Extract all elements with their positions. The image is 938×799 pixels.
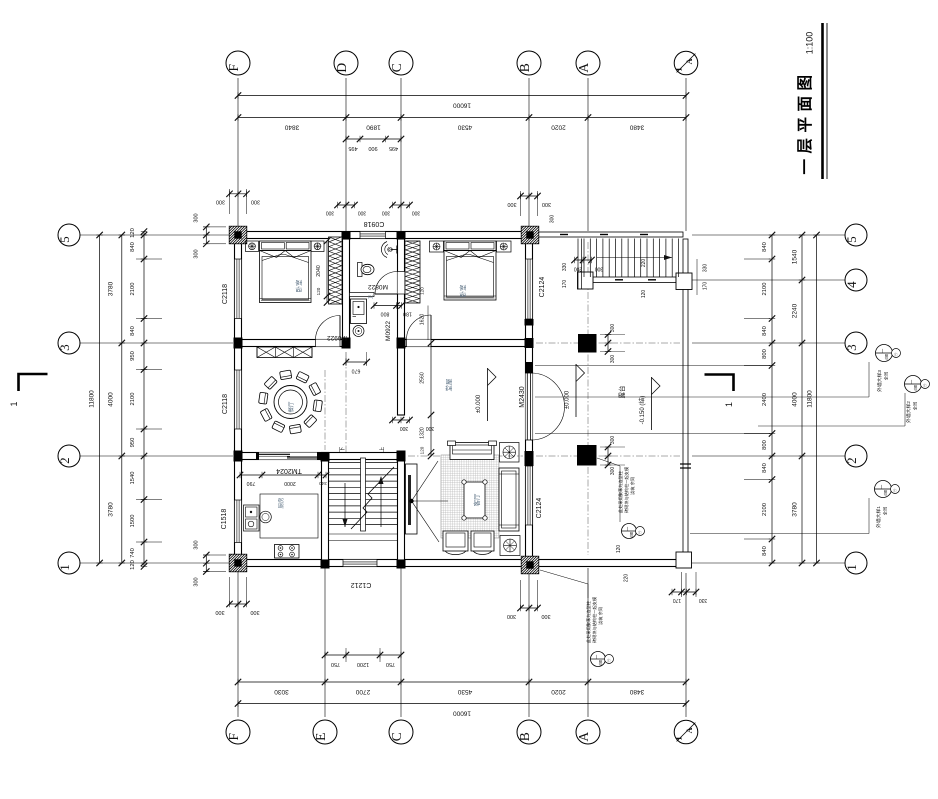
mini dim 170-330 bottom 1/A bbox=[672, 591, 696, 593]
svg-text:800: 800 bbox=[381, 311, 390, 317]
svg-text:卫: 卫 bbox=[368, 294, 373, 299]
dim chain hall 2560-1320-120 bbox=[430, 343, 432, 456]
window C2118 upper in wall F bbox=[235, 259, 242, 319]
svg-text:外墙大样2: 外墙大样2 bbox=[905, 401, 912, 423]
svg-text:㊀: ㊀ bbox=[606, 658, 611, 662]
svg-text:1500: 1500 bbox=[130, 515, 136, 528]
svg-text:300: 300 bbox=[216, 199, 225, 205]
grid line C vertical bbox=[400, 78, 402, 231]
svg-text:1: 1 bbox=[674, 67, 684, 71]
svg-text:340: 340 bbox=[319, 481, 327, 486]
svg-text:300: 300 bbox=[194, 249, 200, 258]
svg-text:详图: 详图 bbox=[883, 490, 888, 496]
section cut marker 1 left bbox=[19, 374, 48, 391]
svg-text:E: E bbox=[313, 733, 328, 741]
exterior wall top (grid 5, F to B) bbox=[235, 232, 533, 239]
window C1518 in wall F bbox=[235, 500, 242, 543]
bathroom shower head symbol bbox=[381, 242, 387, 258]
svg-text:170: 170 bbox=[703, 282, 709, 291]
dim row bottom 16000 bbox=[238, 703, 686, 705]
svg-text:4530: 4530 bbox=[457, 688, 472, 695]
svg-text:900: 900 bbox=[368, 145, 377, 151]
svg-text:4: 4 bbox=[844, 281, 859, 288]
svg-text:此处采用聚苯为连型柱: 此处采用聚苯为连型柱 bbox=[617, 470, 624, 513]
double door M2430 (wall B, hall to terrace) bbox=[526, 373, 533, 440]
svg-text:详图: 详图 bbox=[629, 532, 634, 538]
stub lines right chain bbox=[744, 258, 770, 260]
mini dim 300-300 above C2 column bbox=[393, 419, 410, 421]
svg-text:300: 300 bbox=[507, 201, 516, 207]
svg-text:120: 120 bbox=[641, 290, 647, 299]
svg-text:300: 300 bbox=[541, 613, 550, 619]
svg-text:B: B bbox=[517, 63, 532, 72]
terrace steps left edge double line bbox=[577, 239, 579, 290]
white newel column stair landing bbox=[578, 272, 594, 289]
svg-text:740: 740 bbox=[130, 548, 136, 558]
svg-text:M2430: M2430 bbox=[519, 386, 526, 408]
terrace entry steps treads bbox=[583, 239, 585, 278]
svg-text:2100: 2100 bbox=[130, 283, 136, 296]
terrace south wall (B to 1/A) bbox=[533, 560, 679, 567]
svg-text:一: 一 bbox=[625, 526, 630, 531]
svg-text:220: 220 bbox=[624, 574, 630, 583]
terrace stair railing grid4 bbox=[593, 277, 676, 283]
svg-text:2560: 2560 bbox=[420, 372, 426, 384]
bed bedroom2 bbox=[444, 241, 496, 251]
dim chain left segments bbox=[143, 232, 145, 567]
svg-text:一: 一 bbox=[880, 348, 885, 353]
svg-text:厨房: 厨房 bbox=[277, 497, 285, 509]
grid line E vertical (bottom only) bbox=[324, 567, 326, 717]
tv cabinet living room bbox=[406, 464, 418, 534]
nightstand bedroom1 right bbox=[311, 241, 324, 252]
dim chain left 11800 bbox=[99, 235, 101, 563]
bed bedroom1 bbox=[260, 241, 312, 251]
bubble E bottom bbox=[313, 720, 337, 744]
mini dims around column A3 bbox=[607, 335, 609, 352]
column C1 bbox=[397, 560, 406, 569]
svg-text:300: 300 bbox=[250, 609, 259, 615]
grid line F vertical bbox=[237, 78, 239, 231]
axis dash line A interior bbox=[587, 242, 589, 555]
terrace north railing (B to 1/A, grid5) bbox=[533, 232, 684, 237]
corner column B5 hatched bbox=[521, 226, 539, 244]
svg-text:浇筑 余同: 浇筑 余同 bbox=[597, 607, 604, 625]
svg-text:2240: 2240 bbox=[792, 303, 799, 318]
kitchen sink counter bbox=[244, 505, 260, 531]
axis dash centerline wall B bbox=[528, 246, 530, 552]
grid line 1 horizontal bbox=[80, 562, 233, 564]
bathroom washbasin cabinet bbox=[351, 299, 367, 324]
svg-text:3840: 3840 bbox=[284, 124, 299, 131]
nightstand bedroom2 right bbox=[497, 241, 512, 252]
white corner column 1/A-1 (terrace) bbox=[676, 552, 692, 568]
indoor staircase break line bbox=[351, 467, 394, 529]
svg-text:C0918: C0918 bbox=[364, 220, 385, 227]
bathroom floor washer circle bbox=[353, 326, 364, 337]
svg-text:120: 120 bbox=[316, 287, 321, 295]
axis dash line E interior bbox=[324, 370, 326, 450]
interior wall C middle (grid3 to hall niche) bbox=[398, 347, 405, 416]
svg-text:300: 300 bbox=[610, 324, 616, 333]
column E1 bbox=[321, 560, 330, 569]
svg-text:300: 300 bbox=[426, 425, 435, 431]
svg-text:200: 200 bbox=[574, 266, 583, 272]
svg-text:11800: 11800 bbox=[807, 390, 814, 408]
nightstand bedroom2 left bbox=[430, 241, 444, 252]
bubble F top bbox=[226, 51, 250, 75]
living room carpet hatched bbox=[441, 455, 499, 538]
svg-text:800: 800 bbox=[762, 349, 768, 359]
svg-text:170: 170 bbox=[562, 280, 568, 289]
dim 2040-120 wardrobe1 bbox=[326, 241, 328, 303]
sofa east living room bbox=[499, 468, 519, 531]
svg-text:-0.150 (结): -0.150 (结) bbox=[638, 396, 646, 425]
svg-text:3030: 3030 bbox=[274, 688, 289, 695]
bubble C bottom bbox=[389, 720, 413, 744]
svg-text:120: 120 bbox=[130, 228, 136, 238]
svg-text:790: 790 bbox=[247, 480, 256, 486]
axis dash line D interior bbox=[345, 358, 347, 452]
wardrobe bedroom1 bbox=[329, 237, 343, 304]
wall B black fill at door head bbox=[526, 362, 533, 373]
svg-text:C1212: C1212 bbox=[351, 581, 372, 588]
nightstand bedroom1 left bbox=[246, 241, 259, 252]
svg-text:330: 330 bbox=[562, 263, 568, 272]
svg-text:180: 180 bbox=[403, 311, 412, 317]
svg-text:2100: 2100 bbox=[762, 283, 768, 296]
svg-text:840: 840 bbox=[762, 463, 768, 473]
section cut marker 1 right bbox=[705, 375, 734, 392]
indoor staircase up arrow bbox=[380, 477, 382, 527]
bubble 5 left bbox=[58, 224, 80, 246]
svg-text:3: 3 bbox=[57, 344, 72, 351]
svg-text:120: 120 bbox=[420, 446, 425, 454]
grid line 1/A vertical bbox=[685, 78, 687, 231]
svg-text:全同: 全同 bbox=[883, 372, 890, 380]
door M0822 bathroom (wall C) bbox=[375, 293, 398, 295]
corner column B1 hatched bbox=[521, 556, 539, 574]
small column B window jamb mid bbox=[525, 459, 534, 466]
svg-text:2020: 2020 bbox=[551, 124, 566, 131]
dim row bottom segments bbox=[238, 681, 686, 683]
svg-text:外墙大样1: 外墙大样1 bbox=[875, 506, 882, 528]
svg-text:300: 300 bbox=[610, 467, 616, 476]
svg-text:A: A bbox=[685, 727, 694, 733]
svg-text:16000: 16000 bbox=[453, 710, 471, 717]
level mark hall east +-0.000 bbox=[575, 364, 577, 417]
column C5 bbox=[397, 231, 406, 240]
svg-text:A: A bbox=[576, 732, 591, 742]
svg-text:4000: 4000 bbox=[108, 392, 115, 407]
exterior wall left (grid F) bbox=[235, 228, 242, 571]
svg-text:300: 300 bbox=[215, 609, 224, 615]
railing break ticks on 1/A bbox=[680, 463, 691, 465]
svg-text:2100: 2100 bbox=[130, 393, 136, 406]
stub lines left chain bbox=[136, 258, 162, 260]
mini dims around column A2 bbox=[607, 447, 609, 465]
dim 790-2000-340 kitchen bbox=[240, 474, 326, 476]
window C0918 in top wall bbox=[360, 232, 386, 239]
extension line door bottom to right chain bbox=[535, 433, 772, 435]
svg-text:露台: 露台 bbox=[617, 386, 626, 399]
bathroom toilet bbox=[358, 263, 363, 277]
svg-text:C2118: C2118 bbox=[222, 394, 229, 414]
bubble F bottom bbox=[226, 720, 250, 744]
grid line 3 horizontal bbox=[80, 342, 233, 344]
dim row top 16000 bbox=[238, 95, 686, 97]
window C2118 lower in wall F bbox=[235, 370, 242, 429]
svg-text:堂屋: 堂屋 bbox=[444, 378, 453, 392]
svg-text:一: 一 bbox=[909, 379, 914, 384]
svg-text:C1518: C1518 bbox=[221, 509, 228, 530]
axis dash centerline wall 5 bbox=[248, 234, 520, 236]
svg-text:1: 1 bbox=[844, 564, 859, 571]
svg-text:3: 3 bbox=[844, 344, 859, 351]
svg-text:㊀: ㊀ bbox=[892, 488, 897, 492]
svg-text:D: D bbox=[334, 63, 349, 73]
bubble 2 right bbox=[845, 445, 867, 467]
bubble 1 left bbox=[58, 552, 80, 574]
interior wall grid3 (C to B, bedroom2 south) bbox=[405, 340, 526, 347]
note exterior wall detail 3 bbox=[876, 345, 893, 362]
svg-text:A: A bbox=[576, 63, 591, 73]
svg-text:砖砌块与结构柱一起支模: 砖砌块与结构柱一起支模 bbox=[591, 596, 598, 643]
svg-text:750: 750 bbox=[386, 661, 395, 667]
note exterior wall detail 2 bbox=[905, 376, 922, 393]
column B2 bbox=[525, 451, 534, 461]
svg-text:300: 300 bbox=[595, 266, 604, 272]
svg-text:A: A bbox=[685, 58, 694, 64]
exterior wall right (grid B) bbox=[526, 228, 533, 571]
svg-text:1200: 1200 bbox=[357, 661, 369, 667]
grid line 4 horizontal (right only) bbox=[692, 279, 845, 281]
column D5 bbox=[342, 231, 351, 240]
svg-text:详图: 详图 bbox=[884, 354, 889, 360]
interior wall C upper (top to grid 3) bbox=[398, 239, 405, 347]
sideboard north living room bbox=[450, 443, 494, 460]
svg-text:浇筑 余同: 浇筑 余同 bbox=[629, 477, 636, 495]
svg-text:1:100: 1:100 bbox=[805, 32, 815, 55]
svg-text:M0822: M0822 bbox=[368, 283, 388, 290]
svg-text:3780: 3780 bbox=[108, 502, 115, 517]
kitchen gas stove bbox=[275, 545, 300, 559]
dim chain right segments bbox=[771, 235, 773, 563]
mini dim 300-300 left F5 bbox=[205, 227, 207, 244]
svg-text:4530: 4530 bbox=[457, 124, 472, 131]
note leader wall B1 bbox=[540, 570, 588, 584]
svg-text:餐厅: 餐厅 bbox=[287, 401, 295, 413]
bubble 1 right bbox=[845, 552, 867, 574]
terrace steps arrow bbox=[597, 257, 672, 259]
dim 800-180 bedroom2 door bbox=[374, 305, 402, 307]
exterior wall bottom (grid 1, F to B) bbox=[235, 560, 533, 567]
bubble B top bbox=[517, 51, 541, 75]
level mark hall west +-0.000 bbox=[487, 368, 489, 421]
svg-text:一层平面图: 一层平面图 bbox=[796, 69, 814, 174]
svg-text:11800: 11800 bbox=[89, 390, 96, 408]
opening in wall grid3 at door M0922 dining bbox=[316, 340, 341, 347]
note exterior wall detail 1 bbox=[875, 481, 892, 498]
small column B window jamb top bbox=[525, 319, 534, 326]
dim chain right totals 1540-2240-4000-3780 bbox=[801, 235, 803, 563]
svg-text:2020: 2020 bbox=[551, 688, 566, 695]
svg-text:C: C bbox=[389, 732, 404, 741]
svg-text:840: 840 bbox=[762, 242, 768, 252]
svg-text:2700: 2700 bbox=[355, 688, 370, 695]
mini dim 300-300 top B bbox=[521, 195, 538, 197]
svg-text:330: 330 bbox=[699, 597, 708, 603]
bathroom partition wall bbox=[350, 293, 375, 297]
svg-text:B: B bbox=[517, 732, 532, 741]
svg-text:全同: 全同 bbox=[882, 507, 889, 515]
svg-text:220: 220 bbox=[641, 259, 647, 268]
side table NE with plant bbox=[500, 443, 520, 463]
svg-text:5: 5 bbox=[844, 236, 859, 243]
axis dash line 3 interior bbox=[408, 342, 523, 344]
side table SE with plant bbox=[500, 536, 520, 556]
corner column F5 hatched bbox=[229, 226, 247, 244]
bubble 1/A bottom bbox=[674, 720, 698, 744]
svg-text:1540: 1540 bbox=[130, 472, 136, 485]
kitchen work rectangle bbox=[260, 494, 318, 538]
axis dash centerline wall F bbox=[237, 246, 239, 552]
extension line terrace to note1 bbox=[690, 533, 869, 535]
svg-text:㊀: ㊀ bbox=[893, 352, 898, 356]
mini dim 300-300 top C bbox=[393, 204, 410, 206]
svg-text:2: 2 bbox=[844, 457, 859, 464]
big column A2 bbox=[577, 445, 597, 466]
opening in wall grid3 at door M0922 bedroom2 bbox=[407, 340, 432, 347]
window C2124 lower in wall B bbox=[526, 466, 533, 525]
interior wall grid3 (F to D) bbox=[242, 340, 343, 347]
interior wall grid2 (F to C) bbox=[242, 453, 405, 460]
axis dash centerline wall 1 bbox=[248, 562, 520, 564]
bubble C top bbox=[389, 51, 413, 75]
svg-text:300: 300 bbox=[251, 199, 260, 205]
bubble B bottom bbox=[517, 720, 541, 744]
grid line B vertical bbox=[528, 78, 530, 226]
mini dim 300-300 bottom B bbox=[521, 607, 538, 609]
svg-text:卧室: 卧室 bbox=[294, 279, 303, 293]
dining chairs ring bbox=[313, 400, 322, 412]
bubble 5 right bbox=[845, 224, 867, 246]
svg-text:±0.000: ±0.000 bbox=[476, 394, 482, 413]
svg-text:840: 840 bbox=[130, 242, 136, 252]
dining round table bbox=[274, 386, 307, 419]
dim chain left totals 3780-4000-3780 bbox=[121, 235, 123, 563]
svg-text:300: 300 bbox=[194, 213, 200, 222]
dim chain right 11800 bbox=[816, 235, 818, 563]
svg-text:㊀: ㊀ bbox=[637, 530, 642, 534]
dim 670 bathroom door bbox=[346, 361, 367, 363]
svg-text:4000: 4000 bbox=[792, 392, 799, 407]
svg-text:300: 300 bbox=[610, 436, 616, 445]
svg-text:300: 300 bbox=[412, 210, 421, 216]
svg-text:670: 670 bbox=[352, 368, 361, 374]
note leader terrace column A2 bbox=[597, 458, 620, 466]
svg-text:F: F bbox=[226, 732, 241, 740]
svg-text:1320: 1320 bbox=[420, 427, 426, 439]
svg-text:1540: 1540 bbox=[792, 249, 799, 264]
svg-text:300: 300 bbox=[382, 210, 391, 216]
svg-text:170: 170 bbox=[673, 597, 682, 603]
door M0922 dining (wall grid3) bbox=[339, 316, 341, 341]
armchair living south 1 bbox=[443, 531, 468, 551]
svg-text:C2124: C2124 bbox=[539, 277, 546, 298]
bubble 4 right bbox=[845, 269, 867, 291]
svg-text:800: 800 bbox=[762, 440, 768, 450]
axis dash line 2 interior bbox=[244, 455, 318, 457]
extension line door mid to note3 bbox=[535, 396, 869, 398]
svg-text:全同: 全同 bbox=[912, 402, 919, 410]
extension line door top to right chain bbox=[535, 365, 772, 367]
svg-text:3480: 3480 bbox=[629, 688, 644, 695]
bubble 3 right bbox=[845, 332, 867, 354]
svg-text:120: 120 bbox=[616, 545, 622, 554]
column C2 bbox=[397, 451, 406, 462]
door M0922 bedroom2 (wall grid3) bbox=[430, 315, 432, 340]
svg-text:M0922: M0922 bbox=[385, 321, 392, 341]
bubble A bottom bbox=[576, 720, 600, 744]
svg-text:300: 300 bbox=[358, 210, 367, 216]
sliding door TM2024 (kitchen wall grid2) bbox=[259, 453, 317, 460]
svg-text:300: 300 bbox=[542, 201, 551, 207]
svg-text:详图: 详图 bbox=[598, 660, 603, 666]
svg-text:750: 750 bbox=[331, 661, 340, 667]
svg-text:F: F bbox=[226, 63, 241, 71]
bubble A top bbox=[576, 51, 600, 75]
indoor staircase center stringer bbox=[361, 458, 366, 531]
svg-text:TM2024: TM2024 bbox=[276, 467, 302, 474]
bubble 1/A top bbox=[674, 51, 698, 75]
column F3 bbox=[234, 338, 243, 349]
indoor staircase lower landing lines bbox=[329, 533, 398, 535]
svg-text:300: 300 bbox=[550, 215, 556, 224]
svg-text:㊀: ㊀ bbox=[922, 383, 927, 387]
svg-text:300: 300 bbox=[194, 540, 200, 549]
svg-text:330: 330 bbox=[703, 264, 709, 273]
mini dim 300-300 bottom F bbox=[230, 603, 247, 605]
svg-text:120: 120 bbox=[130, 560, 136, 570]
svg-text:2100: 2100 bbox=[762, 503, 768, 516]
svg-text:详图: 详图 bbox=[913, 385, 918, 391]
window C1212 in bottom wall bbox=[343, 560, 377, 567]
grid line 2 horizontal bbox=[80, 455, 233, 457]
svg-text:840: 840 bbox=[130, 326, 136, 336]
interior wall C lower (grid2 to grid1) bbox=[398, 453, 405, 561]
svg-text:1: 1 bbox=[9, 401, 19, 406]
grid line A vertical bbox=[587, 78, 589, 231]
svg-text:5: 5 bbox=[57, 236, 72, 243]
svg-text:C2118: C2118 bbox=[222, 284, 229, 304]
svg-text:840: 840 bbox=[762, 326, 768, 336]
level mark terrace -0.150 bbox=[651, 377, 653, 430]
svg-text:此处采用聚苯为连型柱: 此处采用聚苯为连型柱 bbox=[585, 600, 592, 643]
dim row top segments bbox=[238, 117, 686, 119]
svg-text:砖砌块与结构柱一起支模: 砖砌块与结构柱一起支模 bbox=[623, 466, 630, 513]
armchair living south 2 bbox=[471, 531, 494, 551]
mini dim 300-300 left F1 bbox=[205, 555, 207, 572]
svg-text:上: 上 bbox=[378, 446, 386, 452]
svg-text:300: 300 bbox=[610, 355, 616, 364]
svg-text:客厅: 客厅 bbox=[472, 493, 481, 507]
bubble D top bbox=[334, 51, 358, 75]
svg-text:外墙大样3: 外墙大样3 bbox=[876, 370, 883, 392]
interior wall D (top to grid 3) bbox=[343, 239, 350, 347]
white corner column 1/A-4 (stair) bbox=[676, 273, 692, 290]
svg-text:C: C bbox=[389, 63, 404, 72]
